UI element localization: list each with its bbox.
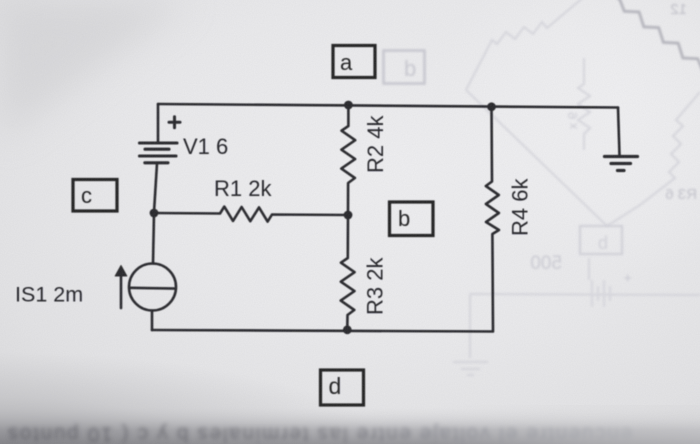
resistor R2 (341, 105, 355, 213)
resistor R3 (341, 216, 355, 330)
box d (321, 370, 364, 405)
ghost wire box to battery (588, 258, 590, 280)
node top of R2 (344, 101, 353, 110)
ground GND (605, 157, 638, 171)
wire left branch to battery (157, 104, 160, 142)
current source arrow (120, 274, 123, 308)
node top of R4 (487, 102, 496, 111)
wire battery to node c (154, 164, 157, 213)
resistor R1 (154, 207, 348, 222)
ghost bridge bottom-left edge (466, 90, 607, 226)
battery V1 (140, 143, 178, 163)
node c junction (150, 209, 159, 218)
ghost bridge top-right edge (darker zigzag) (612, 0, 700, 74)
ghost bridge circuit (show-through from next page) (453, 0, 700, 375)
bottom dark band (0, 407, 700, 444)
current source IS1 (129, 264, 176, 311)
main circuit (115, 101, 637, 335)
box c (73, 180, 117, 212)
ghost wire to ground (469, 294, 471, 358)
battery plus sign (169, 117, 180, 128)
ghost bridge top-left edge (466, 0, 598, 90)
wire current source to bottom rail (151, 311, 154, 331)
resistor R4 (486, 107, 499, 331)
vignette top-left corner (0, 0, 190, 140)
wire right drop to ground (618, 108, 620, 156)
ghost bridge bottom-right edge (607, 92, 700, 226)
ghost wire bottom (470, 294, 700, 295)
ghost battery (592, 280, 610, 307)
box a (333, 46, 375, 78)
wire node c to current source (153, 214, 154, 264)
ghost ground (453, 362, 488, 375)
bright patch upper right of paper (400, 0, 700, 300)
ghost middle resistor (578, 58, 590, 150)
node bottom of R3 (343, 325, 352, 334)
ghost box d with battery label (580, 226, 622, 254)
svg-text:encuentre el voltaje entre las: encuentre el voltaje entre las terminale… (6, 423, 632, 444)
wire bottom rail (152, 330, 493, 332)
node b junction (344, 211, 353, 220)
box b (390, 202, 434, 236)
wire top rail (158, 104, 618, 108)
ghost box b (384, 51, 425, 84)
